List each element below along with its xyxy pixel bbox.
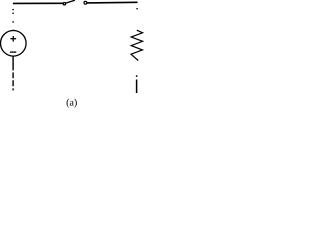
switch lever (open) (66, 0, 75, 3)
wire top-right segment (87, 1, 138, 4)
node: dotted continuation, left top (12, 9, 14, 31)
wire: dashed continuation, bottom-left (12, 72, 14, 90)
switch right contact (84, 1, 87, 4)
node: dotted continuation, right top (136, 8, 137, 9)
resistor R1 (131, 30, 143, 60)
node: dot below resistor (136, 75, 138, 77)
wire bottom-right segment (136, 80, 138, 94)
wire top-left segment (13, 2, 63, 4)
wire: source bottom lead (12, 56, 14, 70)
label (a) (67, 99, 77, 108)
switch left contact (63, 3, 65, 5)
voltage source V1 (1, 31, 27, 57)
